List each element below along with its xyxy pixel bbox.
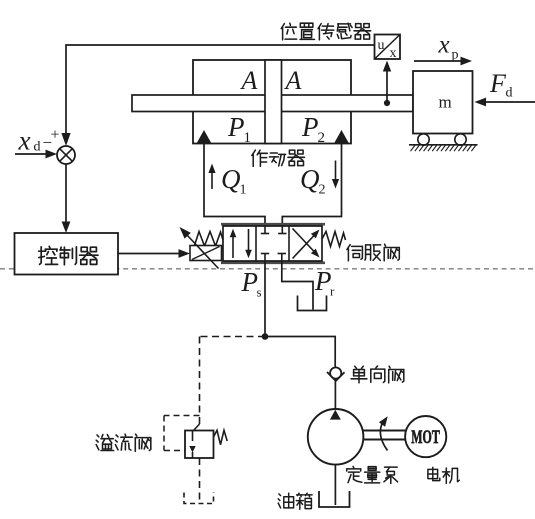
wire check valve to pump bbox=[334, 381, 336, 409]
piston bbox=[265, 60, 282, 144]
port arrow into right chamber bbox=[334, 130, 349, 144]
svg-text:1: 1 bbox=[244, 130, 252, 146]
wheel right bbox=[455, 134, 466, 145]
shaft pump to motor bbox=[363, 431, 405, 440]
wire Pr return from valve bbox=[282, 261, 313, 310]
label minus sign bbox=[43, 133, 53, 152]
svg-text:Q: Q bbox=[300, 164, 320, 194]
svg-text:Q: Q bbox=[221, 164, 241, 194]
wire controller output to servo valve bbox=[118, 249, 190, 258]
arrow F_d force bbox=[475, 98, 535, 107]
boundary dashed line between control and hydraulic sections bbox=[0, 268, 535, 270]
relief valve spring bbox=[214, 430, 228, 444]
svg-text:m: m bbox=[439, 93, 452, 112]
wheel left bbox=[418, 134, 429, 145]
controller box 控制器 bbox=[15, 233, 119, 275]
label P1 bbox=[227, 112, 251, 146]
svg-text:P: P bbox=[314, 266, 332, 296]
arrow Q1 up bbox=[208, 164, 215, 190]
wire input x_d with arrow into summing junction bbox=[15, 150, 57, 159]
label x_d bbox=[18, 126, 41, 156]
summing junction bbox=[57, 146, 75, 164]
position sensor u/x box bbox=[375, 35, 401, 62]
proportional arrow across solenoid bbox=[180, 227, 219, 269]
label x_p bbox=[438, 32, 459, 63]
check valve bbox=[327, 367, 345, 381]
wire Q2 valve to right chamber bbox=[282, 144, 341, 228]
label Pr bbox=[314, 266, 335, 299]
label A right chamber bbox=[284, 66, 302, 95]
servo valve body bbox=[223, 226, 322, 261]
label 电机 electric motor bbox=[428, 467, 459, 483]
label A left chamber bbox=[240, 66, 258, 95]
svg-text:x: x bbox=[438, 32, 450, 59]
wire Ps supply from valve bbox=[264, 261, 266, 337]
dashed wire junction to relief valve bbox=[194, 337, 266, 431]
svg-text:r: r bbox=[330, 284, 335, 299]
label 油箱 oil tank bbox=[278, 493, 312, 509]
oil tank symbol bbox=[319, 491, 350, 507]
servo valve left spring bbox=[195, 232, 224, 247]
svg-text:P: P bbox=[301, 112, 319, 142]
return tank symbol bbox=[298, 296, 327, 311]
pump output triangle bbox=[330, 410, 341, 420]
svg-text:x: x bbox=[390, 46, 397, 61]
label F_d bbox=[489, 69, 513, 101]
label P2 bbox=[301, 112, 325, 146]
svg-text:1: 1 bbox=[240, 183, 247, 198]
svg-text:2: 2 bbox=[319, 183, 326, 198]
port arrow into left chamber bbox=[197, 130, 212, 144]
label 单向阀 check valve bbox=[351, 366, 404, 383]
piston rod bbox=[132, 95, 413, 112]
servo valve center cell blocked ports bbox=[261, 226, 287, 261]
svg-text:d: d bbox=[34, 140, 41, 155]
mass block m bbox=[413, 71, 473, 134]
wire junction to check valve bbox=[265, 337, 335, 367]
wire summing junction to controller bbox=[62, 164, 71, 233]
svg-text:MOT: MOT bbox=[411, 427, 440, 448]
svg-text:A: A bbox=[240, 66, 258, 95]
label 定量泵 fixed displacement pump bbox=[347, 466, 398, 483]
arrow x_p displacement bbox=[414, 57, 472, 66]
svg-text:F: F bbox=[489, 69, 507, 98]
svg-text:A: A bbox=[284, 66, 302, 95]
label 位置传感器 position sensor bbox=[281, 23, 371, 40]
arrow Q2 down bbox=[332, 161, 339, 189]
label 溢流阀 relief valve bbox=[96, 434, 151, 451]
label Q2 bbox=[300, 164, 326, 198]
svg-text:x: x bbox=[18, 126, 31, 156]
relief valve internal arrow bbox=[189, 431, 195, 458]
dashed wire relief valve to tank bbox=[199, 458, 201, 500]
servo valve proportional bars bbox=[221, 224, 325, 263]
servo valve proportional solenoid bbox=[190, 246, 222, 261]
relief valve pilot dashed line bbox=[164, 416, 200, 451]
svg-text:d: d bbox=[506, 86, 513, 101]
wire pump suction to tank bbox=[334, 465, 336, 505]
pump circle bbox=[308, 409, 364, 465]
svg-text:2: 2 bbox=[318, 130, 326, 146]
ground hatching under mass bbox=[409, 145, 478, 151]
svg-text:u: u bbox=[378, 38, 385, 53]
svg-text:+: + bbox=[51, 127, 60, 144]
rotation arrow on shaft bbox=[379, 416, 388, 450]
svg-text:s: s bbox=[257, 285, 262, 300]
servo valve right spring bbox=[322, 232, 346, 247]
label 作动器 actuator bbox=[252, 150, 305, 166]
wire feedback from position sensor to summing junction bbox=[61, 45, 374, 146]
label plus sign bbox=[51, 127, 60, 144]
hydraulic cylinder body bbox=[193, 60, 351, 144]
label 伺服阀 servo valve bbox=[347, 244, 399, 261]
servo valve left cell arrows bbox=[230, 229, 252, 258]
label Q1 bbox=[221, 164, 247, 198]
node Ps junction bbox=[262, 333, 269, 340]
svg-text:p: p bbox=[452, 48, 459, 63]
dashed tank under relief valve bbox=[184, 493, 214, 504]
svg-text:P: P bbox=[227, 112, 245, 142]
wire rod to position sensor bbox=[383, 61, 391, 107]
wire Q1 valve to left chamber bbox=[204, 144, 265, 228]
servo valve right cell crossed arrows bbox=[293, 229, 320, 259]
label Ps bbox=[241, 267, 262, 300]
motor circle MOT bbox=[405, 416, 446, 457]
relief valve box bbox=[185, 431, 214, 459]
svg-text:P: P bbox=[241, 267, 259, 297]
